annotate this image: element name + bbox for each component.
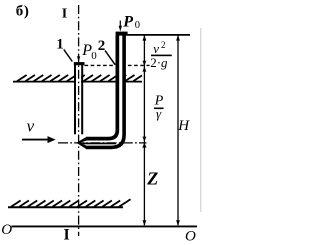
fraction bar of v^2/2g [151, 55, 172, 57]
svg-text:H: H [177, 118, 190, 134]
arrow down at baseline [143, 220, 147, 225]
H dimension line [177, 36, 179, 226]
piezometer tube 1 bore [76, 65, 81, 134]
channel bottom hatching [11, 199, 131, 207]
Pitot tube 2 mouth [76, 137, 86, 149]
P0 pressure arrow shaft on tube 2 [119, 21, 121, 29]
svg-text:0: 0 [91, 50, 97, 62]
free surface hatching [17, 75, 142, 81]
svg-text:γ: γ [156, 106, 162, 121]
svg-text:v: v [27, 116, 35, 135]
svg-text:2: 2 [98, 38, 106, 54]
dashed static-head level line (liquid level of tube 1) [85, 64, 150, 66]
velocity arrow shaft [22, 139, 50, 141]
vertical axis I-I dash-dot line [78, 5, 80, 236]
total head level line (liquid level of tube 2) [127, 34, 191, 36]
Pitot tube 2 bore [119, 36, 123, 131]
svg-text:0: 0 [135, 20, 140, 31]
svg-text:I: I [64, 226, 70, 243]
arrow up at static level [143, 66, 147, 71]
svg-text:P: P [122, 14, 133, 31]
fraction bar of P/gamma [154, 108, 164, 110]
Pitot tube 2 outer wall [86, 36, 124, 148]
channel bottom line [8, 206, 123, 208]
svg-text:O: O [1, 222, 12, 238]
velocity arrowhead [48, 136, 56, 143]
Pitot tube 2 liquid level bar [116, 32, 128, 36]
svg-text:v: v [153, 41, 159, 56]
arrow down at flow axis [143, 137, 147, 142]
piezometer tube 1 right wall [81, 65, 83, 134]
leader line of label 2 [105, 51, 115, 65]
svg-text:2: 2 [161, 40, 166, 50]
svg-text:1: 1 [56, 36, 64, 52]
piezometer tube 1 liquid level bar [74, 62, 85, 65]
flow axis dash-dot line [58, 142, 147, 144]
arrow up at flow axis [142, 143, 146, 148]
arrow up at total head line [143, 35, 147, 40]
piezometer tube 1 left wall [74, 65, 76, 134]
H arrow down [176, 220, 180, 225]
free surface line of the stream [13, 81, 142, 83]
Pitot tube 2 inner wall [86, 36, 117, 139]
svg-text:б): б) [16, 3, 30, 19]
H arrow up [176, 35, 180, 40]
svg-text:O: O [185, 229, 196, 245]
svg-text:Z: Z [146, 169, 158, 189]
Pitot tube 2 mouth slit [80, 141, 87, 146]
dimension chain line [143, 36, 145, 226]
P0 pressure arrowhead on tube 2 [119, 26, 122, 32]
datum baseline O-O [12, 225, 198, 227]
svg-text:2·g: 2·g [150, 55, 168, 70]
arrow down at static level [143, 61, 147, 66]
P0 pressure arrowhead on tube 1 [77, 56, 80, 62]
svg-text:I: I [62, 6, 67, 21]
scan edge artifact at right margin [200, 28, 202, 212]
leader line of label 1 [64, 50, 73, 62]
axis fill through mouth bore [80, 143, 116, 145]
